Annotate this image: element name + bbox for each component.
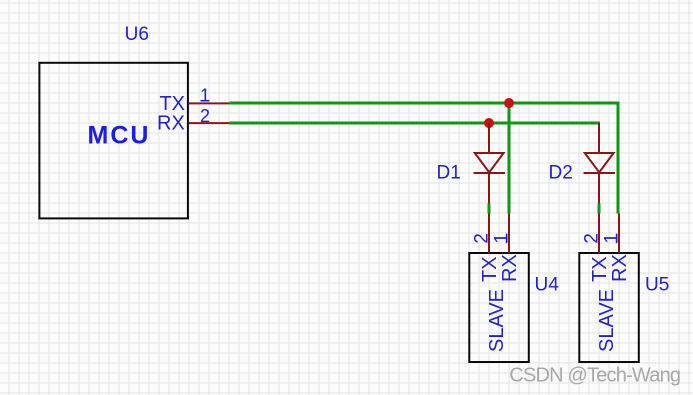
svg-text:CSDN @Tech-Wang: CSDN @Tech-Wang [509,364,680,386]
junction on TX wire [504,98,514,108]
U6 pin 1 stub (TX) [189,102,229,104]
wire from TX junction down to U4 pin 1 [508,103,511,214]
U4 refdes label [535,275,560,296]
svg-text:SLAVE: SLAVE [486,289,508,352]
wire TX horizontal [229,102,619,105]
svg-text:RX: RX [609,254,631,282]
svg-text:SLAVE: SLAVE [596,289,618,352]
U4 pin 2 number [471,233,492,244]
wire D2 cathode to U5 pin 2 [598,204,601,214]
svg-text:1: 1 [601,233,622,244]
U4 pin 2 stub (TX) [488,214,490,254]
svg-text:RX: RX [499,254,521,282]
MCU U6 body [39,63,188,219]
svg-text:2: 2 [200,106,210,126]
watermark [509,364,680,386]
U6 value label MCU [88,122,151,150]
U4 pin 1 number [491,233,512,244]
diode D1 [474,123,506,204]
diode D2 [584,123,616,204]
U5 pin 2 number [581,233,602,244]
U4 pin 1 stub (RX) [508,214,510,254]
U4 SLAVE body [469,253,529,362]
svg-text:1: 1 [491,233,512,244]
U6 pin 2 number [200,106,210,126]
svg-text:2: 2 [581,233,602,244]
junction on RX wire [484,118,494,128]
U6 pin 2 name RX [157,112,185,134]
U5 value label SLAVE [596,289,618,352]
svg-text:U6: U6 [125,24,149,45]
U6 pin 2 stub (RX) [189,122,229,124]
U5 pin 2 name TX [589,256,611,282]
D1 refdes label [437,163,461,184]
U5 SLAVE body [579,253,639,362]
svg-text:TX: TX [589,256,611,282]
wire D1 cathode to U4 pin 2 [488,204,491,214]
U5 pin 2 stub (TX) [598,214,600,254]
svg-text:D2: D2 [549,163,573,184]
U5 pin 1 stub (RX) [618,214,620,254]
U4 pin 2 name TX [479,256,501,282]
U6 pin 1 number [200,85,210,105]
wire RX horizontal [229,122,600,125]
D2 refdes label [549,163,573,184]
wire TX drop to U5 pin 1 [617,103,620,214]
svg-text:RX: RX [157,112,185,134]
svg-text:1: 1 [200,85,210,105]
U4 value label SLAVE [486,289,508,352]
U5 pin 1 number [601,233,622,244]
U5 pin 1 name RX [609,254,631,282]
svg-text:D1: D1 [437,163,461,184]
svg-text:U5: U5 [645,275,669,296]
svg-text:TX: TX [479,256,501,282]
U4 pin 1 name RX [499,254,521,282]
svg-text:U4: U4 [535,275,560,296]
svg-text:MCU: MCU [88,122,151,150]
U5 refdes label [645,275,669,296]
U6 pin 1 name TX [159,93,185,115]
U6 refdes label [125,24,149,45]
svg-text:2: 2 [471,233,492,244]
